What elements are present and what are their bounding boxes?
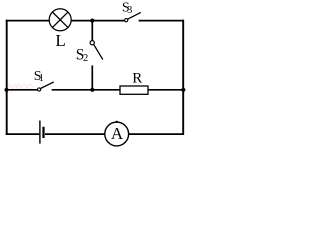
svg-text:jyeoo: jyeoo [6, 81, 33, 93]
svg-text:R: R [132, 71, 142, 87]
svg-text:S1: S1 [34, 69, 44, 84]
svg-text:L: L [55, 31, 65, 50]
svg-text:S2: S2 [76, 47, 88, 64]
svg-text:S3: S3 [122, 1, 132, 16]
svg-text:A: A [111, 124, 124, 143]
